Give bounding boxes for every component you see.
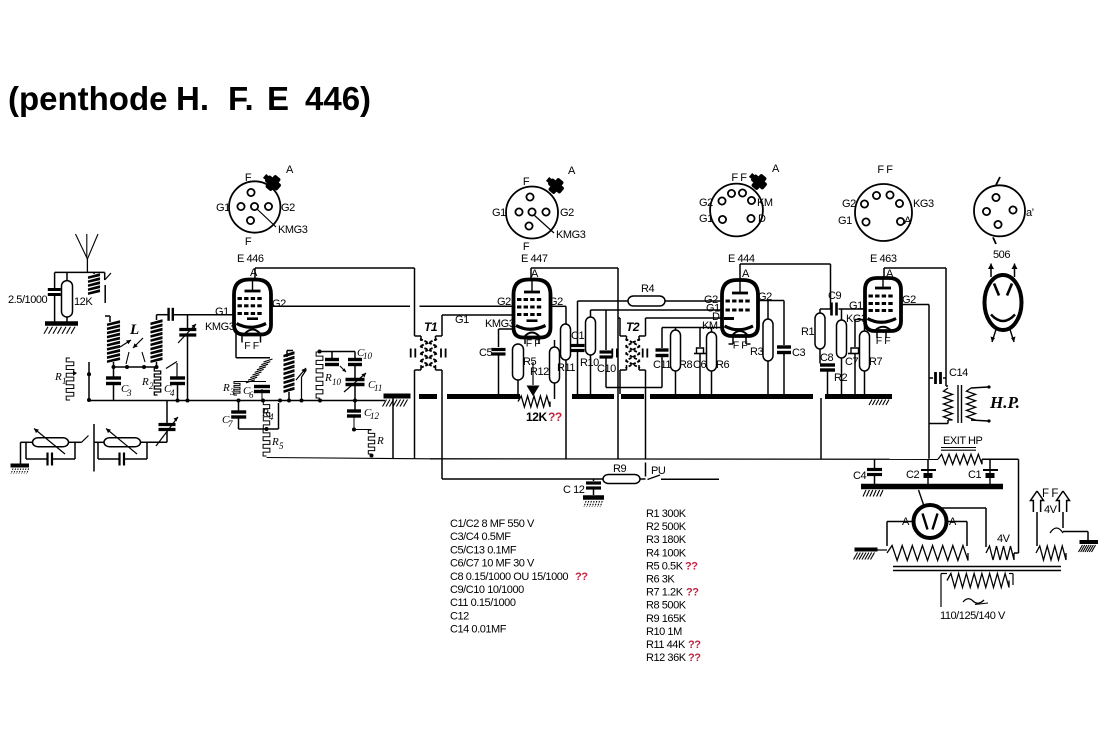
label G2 E463 right <box>902 294 916 306</box>
capacitor C5 <box>479 347 506 394</box>
svg-text:C10: C10 <box>597 363 616 375</box>
capacitor 2.5/1000 <box>8 272 61 322</box>
capacitor C2 <box>906 459 936 484</box>
svg-text:??: ?? <box>548 410 562 424</box>
resistor R11 <box>557 306 575 459</box>
capacitor C8 <box>820 349 835 394</box>
tube E447 <box>514 279 551 338</box>
mains primary <box>941 574 1013 608</box>
label 110/125/140V <box>940 610 1006 622</box>
wire anode E444 <box>740 264 831 280</box>
svg-text:R8: R8 <box>679 359 692 371</box>
bus bottom right <box>861 487 1003 497</box>
svg-text:R4 100K: R4 100K <box>646 547 687 559</box>
svg-text:F F: F F <box>877 164 893 176</box>
wire KM row <box>662 327 723 329</box>
oscillator coil <box>284 351 295 403</box>
resistor 12K <box>62 272 94 322</box>
resistor R4 <box>618 283 723 306</box>
tube socket 506 <box>974 177 1034 261</box>
svg-text:G1: G1 <box>216 202 230 214</box>
label H.P. <box>989 393 1020 412</box>
svg-text:G1: G1 <box>699 213 713 225</box>
coil tap arrow <box>296 368 306 380</box>
filament leads E447 <box>525 338 540 350</box>
svg-text:G2: G2 <box>560 207 574 219</box>
svg-text:R11: R11 <box>557 362 575 374</box>
label KG3 <box>846 313 867 325</box>
capacitor C3a <box>106 367 132 401</box>
svg-text:E 463: E 463 <box>870 253 897 265</box>
wire cathode E446 down <box>236 330 270 358</box>
svg-text:R8 500K: R8 500K <box>646 600 687 612</box>
label A E446 <box>250 267 258 279</box>
wire anode E446 to T1 <box>255 268 415 280</box>
resistor R3a <box>222 382 266 398</box>
svg-text:R4: R4 <box>641 283 654 295</box>
filament leads E463 <box>876 331 890 347</box>
capacitor C13 <box>571 301 591 394</box>
switch contact mid <box>300 370 307 403</box>
svg-text:2.5/1000: 2.5/1000 <box>8 294 48 306</box>
wire rectifier right <box>947 522 968 547</box>
svg-text:C12: C12 <box>450 610 469 622</box>
ground right <box>1079 542 1098 552</box>
svg-text:7: 7 <box>228 419 233 429</box>
capacitor C7 trimmer <box>845 348 861 394</box>
svg-text:C6/C7 10 MF 30 V: C6/C7 10 MF 30 V <box>450 558 535 570</box>
tube socket E444 <box>699 163 780 265</box>
wire G2 E447 right <box>551 305 567 307</box>
capacitor value list <box>450 518 588 636</box>
resistor R2a <box>141 368 161 395</box>
variable capacitor C11a <box>344 365 382 403</box>
svg-text:5: 5 <box>279 441 284 451</box>
svg-text:L: L <box>129 322 139 338</box>
wire R10 to E444 G1 <box>591 309 724 311</box>
resistor R8 <box>671 328 693 395</box>
resistor R5a <box>263 429 284 456</box>
bus segment 3 <box>572 394 614 399</box>
tube E446 <box>234 279 271 335</box>
svg-text:506: 506 <box>993 249 1010 261</box>
wire arrow left stem <box>1036 512 1038 546</box>
tube E463 <box>865 278 901 332</box>
svg-text:R2: R2 <box>834 372 847 384</box>
wire cathode loop <box>239 403 279 431</box>
svg-text:F: F <box>523 241 530 253</box>
svg-text:C2: C2 <box>906 469 919 481</box>
filament leads E444 <box>729 336 751 352</box>
capacitor C1 <box>968 459 998 484</box>
svg-text:KM: KM <box>757 197 773 209</box>
wire main row mid <box>237 399 323 403</box>
tube 506 <box>985 264 1022 343</box>
label T2 <box>626 320 640 334</box>
resistor R5 <box>513 344 537 394</box>
svg-text:R5 0.5K: R5 0.5K <box>646 560 684 572</box>
svg-text:(penthode: (penthode <box>8 80 167 117</box>
svg-text:G2: G2 <box>699 197 713 209</box>
svg-text:R: R <box>222 382 230 394</box>
svg-text:C3: C3 <box>792 347 805 359</box>
svg-text:C1: C1 <box>968 469 981 481</box>
svg-text:R6 3K: R6 3K <box>646 574 675 586</box>
svg-text:G2: G2 <box>281 202 295 214</box>
label T1 <box>424 320 438 334</box>
svg-text:T1: T1 <box>424 320 438 334</box>
tube E444 <box>722 280 758 337</box>
title text (penthode H. F. E 446) <box>8 80 371 117</box>
svg-text:2: 2 <box>149 381 154 391</box>
AC symbol <box>963 599 988 605</box>
svg-text:F: F <box>245 236 252 248</box>
resistor R3 <box>750 319 773 394</box>
label EXIT HP <box>941 435 983 450</box>
capacitor C4a <box>164 378 185 401</box>
bus segment 1 <box>419 394 437 399</box>
svg-text:R9 165K: R9 165K <box>646 613 687 625</box>
svg-text:4: 4 <box>269 412 274 422</box>
wire G2 E446 to E447 <box>271 305 514 307</box>
bus segment 4 <box>621 394 644 399</box>
svg-text:R: R <box>141 376 149 388</box>
svg-text:C7: C7 <box>845 356 858 368</box>
variable capacitor trimmer <box>156 401 178 447</box>
svg-text:F F: F F <box>876 335 890 347</box>
svg-text:A: A <box>886 268 894 280</box>
svg-text:11: 11 <box>374 383 382 393</box>
wire junction row <box>112 365 159 369</box>
svg-text:G1: G1 <box>849 300 863 312</box>
svg-text:F: F <box>523 176 530 188</box>
svg-text:R6: R6 <box>716 359 729 371</box>
svg-text:12K: 12K <box>74 296 93 308</box>
label G1 E446 <box>215 306 229 318</box>
capacitor C3 <box>777 347 805 394</box>
svg-text:4V: 4V <box>997 533 1011 545</box>
label A E444 <box>742 268 750 280</box>
label KMG3 E446 <box>205 321 235 333</box>
variable capacitor KM <box>178 315 196 401</box>
wire anode E463 <box>884 268 946 278</box>
transformer T1 <box>411 268 514 479</box>
svg-text:R9: R9 <box>613 463 626 475</box>
wire G2 E463 right <box>901 305 929 459</box>
svg-text:A: A <box>742 268 750 280</box>
wire grid top <box>157 314 234 316</box>
transformer T2 <box>612 318 723 394</box>
svg-text:R12 36K: R12 36K <box>646 652 687 664</box>
resistor EXIT HP <box>938 454 982 464</box>
svg-text:110/125/140 V: 110/125/140 V <box>940 610 1006 622</box>
wire R5 bottom <box>267 458 431 459</box>
wire cathode E463 <box>855 320 865 348</box>
svg-text:R7 1.2K: R7 1.2K <box>646 587 684 599</box>
svg-text:R3: R3 <box>750 346 763 358</box>
svg-text:C8: C8 <box>820 352 833 364</box>
wire down 1018 <box>1018 459 1020 553</box>
svg-text:G1: G1 <box>492 207 506 219</box>
svg-text:G1: G1 <box>455 314 469 326</box>
svg-text:A: A <box>286 164 294 176</box>
svg-text:EXIT HP: EXIT HP <box>943 435 983 447</box>
wire R9 row <box>442 478 603 480</box>
svg-text:E 447: E 447 <box>521 253 548 265</box>
svg-text:C9: C9 <box>828 290 841 302</box>
resistor R10 <box>580 310 599 394</box>
label G2 E447 right <box>549 296 563 308</box>
svg-text:E: E <box>267 80 289 117</box>
coil L secondary <box>151 315 163 367</box>
svg-text:C4: C4 <box>853 470 866 482</box>
svg-text:C5/C13 0.1MF: C5/C13 0.1MF <box>450 544 517 556</box>
svg-text:??: ?? <box>685 560 698 572</box>
svg-text:3: 3 <box>126 388 132 398</box>
ground C12 <box>583 498 604 508</box>
wire rectifier left <box>887 522 914 547</box>
bus segment 6 with hatch <box>825 397 892 406</box>
svg-text:G2: G2 <box>497 296 511 308</box>
wire vertical junction <box>87 362 91 402</box>
resistor value list <box>646 508 701 664</box>
label G2 E447 left <box>497 296 511 308</box>
potentiometer 1 <box>21 429 89 466</box>
label G2 E444 right <box>758 291 772 303</box>
svg-text:A: A <box>250 267 258 279</box>
svg-text:G2: G2 <box>842 198 856 210</box>
switch contact C4 <box>166 362 177 377</box>
svg-text:??: ?? <box>686 587 699 599</box>
svg-text:a’: a’ <box>1026 207 1034 219</box>
resistor R1a <box>54 358 77 400</box>
svg-text:6: 6 <box>249 390 254 400</box>
svg-text:G2: G2 <box>272 298 286 310</box>
label A E447 <box>531 268 539 280</box>
svg-text:R11 44K: R11 44K <box>646 639 686 651</box>
svg-text:12: 12 <box>370 411 380 421</box>
svg-text:12K: 12K <box>526 410 547 424</box>
HT winding <box>887 546 968 561</box>
capacitor C10 <box>597 310 616 388</box>
antenna coupling coil <box>88 272 111 303</box>
svg-text:C8 0.15/1000 OU 15/1000: C8 0.15/1000 OU 15/1000 <box>450 571 568 583</box>
ground pot1 <box>11 466 30 475</box>
wire C13 top <box>578 300 619 302</box>
svg-text:R10 1M: R10 1M <box>646 626 682 638</box>
svg-text:4: 4 <box>170 388 175 398</box>
label L <box>129 322 139 338</box>
svg-text:KMG3: KMG3 <box>556 229 586 241</box>
svg-text:C14 0.01MF: C14 0.01MF <box>450 624 507 636</box>
mains core <box>893 567 1061 571</box>
potentiometer 2 <box>94 429 167 466</box>
svg-text:R: R <box>271 436 279 448</box>
capacitor C9 <box>828 290 865 316</box>
wire below E463 bus <box>820 398 822 459</box>
capacitor C12 <box>563 479 601 496</box>
svg-text:KG3: KG3 <box>913 198 934 210</box>
svg-text:E 444: E 444 <box>728 253 755 265</box>
wire vertical 618 <box>617 268 619 459</box>
wire arrow right stem <box>1050 512 1088 540</box>
switch PU <box>646 463 720 480</box>
wire grid G1 E446 <box>233 314 236 316</box>
svg-text:KM: KM <box>702 320 718 332</box>
wire long bottom <box>430 458 1019 461</box>
svg-text:10: 10 <box>363 351 373 361</box>
svg-text:C14: C14 <box>949 367 968 379</box>
svg-text:R1: R1 <box>801 326 814 338</box>
capacitor C6 trimmer <box>693 328 706 395</box>
svg-text:F F: F F <box>731 172 747 184</box>
svg-text:F F: F F <box>244 340 258 352</box>
potentiometer 12K <box>518 362 550 407</box>
wire G2 E444 right <box>758 301 784 346</box>
svg-text:A: A <box>904 215 912 227</box>
svg-text:10: 10 <box>332 377 342 387</box>
wire top script cluster <box>318 350 356 354</box>
svg-text:F F: F F <box>1042 488 1058 500</box>
winding 4V filament <box>1036 546 1066 560</box>
tube socket E463 <box>838 164 934 265</box>
svg-text:446): 446) <box>305 80 371 117</box>
svg-text:C11: C11 <box>653 359 671 371</box>
wire antenna top <box>55 271 105 273</box>
svg-text:C9/C10 10/1000: C9/C10 10/1000 <box>450 584 524 596</box>
capacitor C10a <box>325 347 373 372</box>
capacitor C11 <box>653 328 671 388</box>
series capacitor <box>169 308 173 321</box>
svg-text:F.: F. <box>228 80 254 117</box>
svg-text:F: F <box>245 172 252 184</box>
resistor R4a <box>261 401 274 430</box>
tube socket E446 <box>216 164 308 265</box>
capacitor C12a <box>347 401 380 432</box>
svg-text:R: R <box>261 407 269 419</box>
svg-text:D: D <box>758 213 766 225</box>
svg-text:H.: H. <box>176 80 209 117</box>
output transformer <box>929 385 991 424</box>
resistor R12 <box>530 340 560 399</box>
label G2 E446 <box>272 298 286 310</box>
resistor R10a <box>316 352 341 401</box>
bus segment 2 <box>447 394 520 399</box>
winding 4V rectifier <box>986 533 1019 560</box>
svg-text:KMG3: KMG3 <box>205 321 235 333</box>
svg-text:E 446: E 446 <box>237 253 264 265</box>
svg-text:??: ?? <box>688 652 701 664</box>
wire cathode E447 <box>499 329 514 347</box>
svg-text:??: ?? <box>575 571 588 583</box>
svg-text:R2 500K: R2 500K <box>646 521 687 533</box>
svg-text:T2: T2 <box>626 320 640 334</box>
svg-text:KMG3: KMG3 <box>278 224 308 236</box>
bus segment 5 <box>650 394 813 399</box>
svg-text:A: A <box>531 268 539 280</box>
wire anode E447 <box>531 268 618 280</box>
label G1 E447 <box>455 314 469 326</box>
svg-text:F F: F F <box>526 338 540 350</box>
coil L primary <box>105 316 120 367</box>
svg-text:A: A <box>568 165 576 177</box>
capacitor C14 <box>929 367 968 384</box>
ground bar mid <box>383 396 411 407</box>
labels E444 left <box>702 294 720 332</box>
svg-text:C11 0.15/1000: C11 0.15/1000 <box>450 597 516 609</box>
wire rectifier top right <box>938 508 986 547</box>
label G1 E463 <box>849 300 863 312</box>
switch vertical <box>93 424 95 472</box>
svg-text:KMG3: KMG3 <box>485 318 515 330</box>
ground HT <box>854 550 888 560</box>
wire vertical 646 PU <box>645 388 647 460</box>
svg-text:??: ?? <box>688 639 701 651</box>
arrows F F <box>1031 488 1070 516</box>
resistor R7 <box>860 320 883 395</box>
svg-text:G1: G1 <box>215 306 229 318</box>
antenna <box>76 234 99 272</box>
coupling arrows <box>120 338 145 364</box>
rectifier tube 506 <box>902 490 957 538</box>
capacitor C7a <box>222 401 246 430</box>
svg-text:R: R <box>324 372 332 384</box>
svg-text:C1/C2 8 MF 550 V: C1/C2 8 MF 550 V <box>450 518 535 530</box>
filament leads E446 <box>242 335 261 352</box>
resistor R2 <box>834 309 847 394</box>
svg-text:C3/C4 0.5MF: C3/C4 0.5MF <box>450 531 511 543</box>
resistor R1 <box>801 309 831 349</box>
label 12K <box>526 410 562 424</box>
resistor Ra <box>354 430 384 458</box>
svg-text:C 12: C 12 <box>563 484 585 496</box>
svg-text:3: 3 <box>229 387 235 397</box>
svg-text:A: A <box>772 163 780 175</box>
svg-text:R1 300K: R1 300K <box>646 508 687 520</box>
capacitor C4 <box>853 459 882 484</box>
tube socket E447 <box>492 165 586 265</box>
svg-text:R7: R7 <box>869 356 882 368</box>
wire anode down 946 <box>945 268 947 386</box>
resistor diagonal <box>246 359 273 383</box>
svg-text:R: R <box>54 371 62 383</box>
wire vertical to C9 <box>830 264 832 309</box>
svg-text:R: R <box>376 435 384 447</box>
svg-text:G1: G1 <box>838 215 852 227</box>
capacitor C6a <box>243 385 270 401</box>
svg-text:4V: 4V <box>1044 504 1058 516</box>
wire C10 bottom <box>606 387 662 389</box>
resistor R9 <box>603 463 646 484</box>
svg-text:R3 180K: R3 180K <box>646 534 687 546</box>
svg-text:1: 1 <box>62 376 67 386</box>
svg-text:F F: F F <box>733 340 747 352</box>
label KMG3 E447 <box>485 318 515 330</box>
svg-text:C6: C6 <box>693 359 706 371</box>
ground antenna <box>44 324 78 334</box>
wire bottom left bus <box>89 399 385 403</box>
wire ground-bus down <box>392 398 394 459</box>
svg-text:H.P.: H.P. <box>989 393 1020 412</box>
svg-text:C5: C5 <box>479 347 492 359</box>
resistor R6 <box>707 328 730 395</box>
label A E463 <box>886 268 894 280</box>
